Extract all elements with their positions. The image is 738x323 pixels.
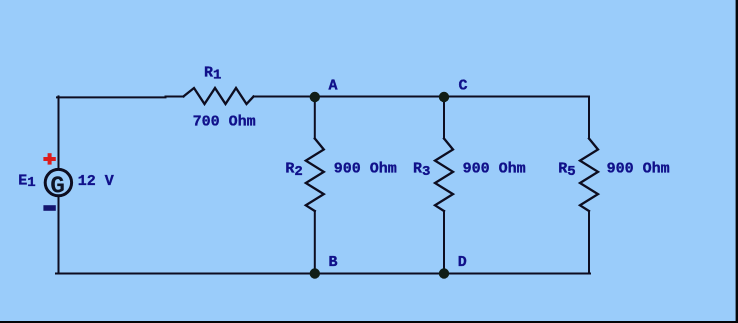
svg-text:900 Ohm: 900 Ohm xyxy=(463,160,526,177)
svg-text:A: A xyxy=(329,78,338,95)
svg-text:D: D xyxy=(458,254,467,271)
svg-text:R2: R2 xyxy=(285,160,302,180)
svg-text:B: B xyxy=(329,254,338,271)
svg-text:R5: R5 xyxy=(558,160,575,180)
svg-text:G: G xyxy=(50,174,65,201)
svg-text:700 Ohm: 700 Ohm xyxy=(193,113,256,130)
svg-text:900 Ohm: 900 Ohm xyxy=(607,160,670,177)
svg-text:E1: E1 xyxy=(18,172,35,191)
svg-text:R3: R3 xyxy=(413,160,430,180)
svg-text:R1: R1 xyxy=(204,65,221,84)
svg-text:C: C xyxy=(459,78,468,95)
svg-text:12 V: 12 V xyxy=(78,173,114,190)
svg-text:900 Ohm: 900 Ohm xyxy=(334,160,397,177)
